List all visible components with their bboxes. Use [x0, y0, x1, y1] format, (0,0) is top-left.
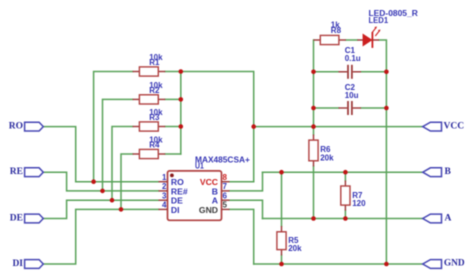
- IC U1 pin 1 marker: [170, 174, 174, 178]
- junction bus at R3: [179, 124, 184, 129]
- junction C2 right: [384, 106, 389, 111]
- wire R6 bottom branch to A rail: [313, 166, 315, 218]
- svg-text:VCC: VCC: [444, 121, 465, 131]
- resistor R2 (10k): [133, 98, 166, 100]
- svg-text:RE: RE: [10, 167, 23, 177]
- wire C1 left wire: [314, 71, 339, 73]
- junction C1 right: [384, 70, 389, 75]
- port flag RO: [25, 122, 44, 131]
- wire pull-up bus vertical: [180, 72, 182, 155]
- junction pin 4 net / R4: [119, 207, 124, 212]
- wire pin 5 to GND rail: [230, 209, 254, 264]
- LED LED1 (LED-0805_R): [357, 39, 363, 41]
- junction A rail at R6: [311, 216, 316, 221]
- svg-text:A: A: [445, 213, 452, 223]
- svg-text:R1: R1: [149, 58, 160, 67]
- capacitor C1 (0.1u): [339, 65, 362, 79]
- port flag B: [423, 168, 442, 177]
- resistor R1 (10k): [133, 71, 166, 73]
- wire R7 bottom branch to A rail: [344, 211, 346, 219]
- IC U1 left pin leads 1-4: [159, 182, 168, 210]
- svg-text:7: 7: [223, 182, 228, 191]
- port flag VCC: [423, 122, 442, 131]
- svg-text:3: 3: [162, 191, 167, 200]
- svg-text:6: 6: [223, 191, 228, 200]
- port flag A: [423, 214, 442, 223]
- wire R2 left to pin 2 net: [103, 99, 133, 190]
- wire GND rail: [254, 263, 423, 265]
- wire R3 left to pin 3 net: [112, 127, 133, 201]
- junction GND rail at LED branch: [384, 262, 389, 267]
- svg-text:20k: 20k: [288, 244, 302, 253]
- port flag GND: [423, 260, 442, 269]
- capacitor C2 (10u): [339, 101, 362, 115]
- svg-text:1: 1: [162, 173, 167, 182]
- resistor R5 (20k): [281, 226, 283, 255]
- wire DE port to IC pin 3: [43, 200, 158, 218]
- junction A rail at R7: [343, 216, 348, 221]
- resistor R4 (10k): [133, 153, 166, 155]
- svg-text:GND: GND: [444, 259, 465, 269]
- junction C2 left: [311, 106, 316, 111]
- svg-text:DE: DE: [10, 213, 23, 223]
- wire VCC rail: [254, 126, 423, 128]
- wire B rail: [263, 171, 423, 173]
- wire R3 right stub: [165, 126, 181, 128]
- resistor R7 (120): [344, 181, 346, 211]
- wire R8 to LED anode: [346, 39, 357, 41]
- svg-text:10u: 10u: [345, 91, 359, 100]
- svg-text:0.1u: 0.1u: [345, 54, 361, 63]
- junction pin 3 net / R3: [110, 198, 115, 203]
- wire R4 right stub: [165, 153, 181, 155]
- IC U1 MAX485CSA+ body: [168, 171, 222, 220]
- wire pin 7 to B rail: [230, 172, 263, 191]
- wire RO port to IC pin 1: [43, 127, 158, 182]
- svg-text:LED1: LED1: [369, 16, 389, 25]
- resistor R3 (10k): [133, 126, 166, 128]
- wire R5 bottom branch to GND rail: [281, 255, 283, 264]
- junction pin 2 net / R2: [100, 189, 105, 194]
- wire R7 top branch from B rail: [344, 172, 346, 180]
- junction C1 left: [311, 70, 316, 75]
- wire R1 left to pin 1 net: [94, 72, 133, 182]
- port flag DE: [25, 214, 44, 223]
- svg-text:GND: GND: [199, 205, 218, 215]
- junction VCC rail at R6: [311, 124, 316, 129]
- svg-text:RO: RO: [9, 121, 23, 131]
- wire R4 left to pin 4 net: [121, 154, 133, 209]
- svg-text:4: 4: [162, 201, 167, 210]
- junction GND rail at R5: [279, 262, 284, 267]
- wire A rail: [263, 218, 423, 220]
- port flag DI: [25, 260, 44, 269]
- wire decoupling left vertical: [313, 40, 315, 127]
- wire R5 top branch from B rail: [281, 172, 283, 226]
- junction pin 1 net / R1: [91, 179, 96, 184]
- IC U1 right pin leads 8-5: [222, 182, 230, 210]
- svg-text:120: 120: [352, 199, 366, 208]
- svg-text:R3: R3: [149, 113, 160, 122]
- junction B rail at R7: [343, 170, 348, 175]
- wire pin 6 to A rail: [230, 200, 263, 218]
- resistor R8 (1k): [314, 39, 346, 41]
- wire R6 top branch from VCC rail: [313, 127, 315, 135]
- junction bus at R1: [179, 69, 184, 74]
- wire C1 right wire: [361, 71, 386, 73]
- wire DI port to IC pin 4: [43, 209, 158, 264]
- svg-text:8: 8: [223, 173, 228, 182]
- svg-text:R4: R4: [149, 141, 160, 150]
- junction VCC rail at feed: [251, 124, 256, 129]
- junction B rail at R5: [279, 170, 284, 175]
- wire C2 left wire: [314, 107, 339, 109]
- wire pin 8 stub: [230, 181, 254, 183]
- svg-text:5: 5: [223, 201, 228, 210]
- wire R2 right stub: [165, 98, 181, 100]
- svg-text:DI: DI: [12, 259, 23, 269]
- svg-text:2: 2: [162, 182, 167, 191]
- svg-text:B: B: [445, 167, 452, 177]
- wire LED cathode to GND vertical: [379, 40, 386, 264]
- resistor R6 (20k): [313, 135, 315, 167]
- port flag RE: [25, 168, 44, 177]
- svg-text:20k: 20k: [320, 154, 334, 163]
- svg-text:R2: R2: [149, 86, 160, 95]
- wire C2 right wire: [361, 107, 386, 109]
- junction bus at R2: [179, 97, 184, 102]
- wire RE port to IC pin 2: [43, 172, 158, 191]
- svg-text:U1: U1: [195, 161, 204, 170]
- wire VCC feed from bus to pin 8: [181, 72, 254, 182]
- svg-text:R8: R8: [331, 26, 342, 35]
- svg-text:DI: DI: [171, 205, 180, 215]
- wire R1 right stub: [165, 71, 181, 73]
